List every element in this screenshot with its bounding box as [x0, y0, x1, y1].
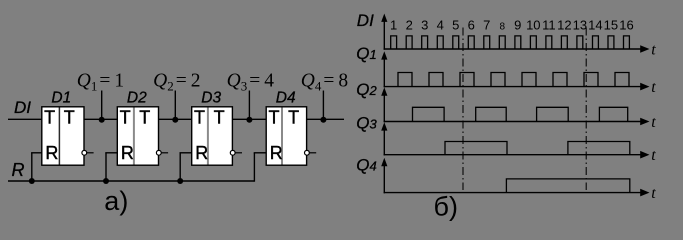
svg-text:R: R [45, 143, 58, 163]
svg-text:15: 15 [604, 18, 618, 33]
wire Q4 tap (vertical) [322, 91, 324, 120]
svg-text:10: 10 [526, 18, 540, 33]
svg-text:14: 14 [588, 18, 602, 33]
svg-text:Q: Q [301, 71, 315, 92]
svg-text:2: 2 [191, 71, 201, 92]
svg-text:D1: D1 [51, 90, 71, 107]
wire Q1 tap (vertical) [101, 91, 103, 120]
svg-text:4: 4 [264, 71, 274, 92]
flip-flop D1 (T-type) [42, 107, 84, 165]
inverted output bubble of D1 [82, 150, 87, 155]
junction node Q3 [246, 117, 252, 123]
svg-text:Q1: Q1 [356, 44, 376, 63]
pulse numbers 1..16 [390, 18, 634, 33]
axis row DI: horizontal time axis with arrow [384, 48, 643, 50]
wire D3.Q to D4.T [232, 118, 266, 120]
svg-text:а): а) [104, 186, 128, 216]
node label Q2 = 2 [153, 71, 200, 94]
junction node Q1 [99, 117, 105, 123]
node label Q1 = 1 [77, 71, 124, 94]
svg-text:4: 4 [437, 18, 444, 33]
svg-text:T: T [269, 107, 280, 127]
svg-text:5: 5 [452, 18, 459, 33]
inverted output bubble of D3 [230, 150, 235, 155]
svg-text:1: 1 [390, 18, 397, 33]
axis row DI: vertical axis with up arrow [383, 18, 385, 50]
flip-flop D3 (T-type) [192, 107, 233, 165]
wire D2 inverted output stub [161, 152, 168, 154]
cursor line after pulse 13 (dash-dot) [585, 28, 587, 191]
svg-text:T: T [139, 107, 150, 127]
svg-text:T: T [288, 107, 299, 127]
svg-text:T: T [120, 107, 131, 127]
node label Q3 = 4 [227, 71, 275, 94]
svg-text:1: 1 [91, 78, 98, 93]
svg-text:=: = [249, 71, 260, 92]
svg-text:16: 16 [619, 18, 633, 33]
svg-text:2: 2 [406, 18, 413, 33]
wire D1.Q to D2.T [84, 118, 117, 120]
svg-text:3: 3 [241, 78, 248, 93]
axis row Q4: vertical axis with up arrow [383, 162, 385, 194]
svg-text:б): б) [434, 191, 458, 221]
svg-text:t: t [651, 114, 656, 131]
svg-text:DI: DI [357, 11, 374, 30]
svg-text:D3: D3 [201, 90, 221, 107]
axis row Q1: horizontal time axis with arrow [384, 86, 643, 88]
svg-text:R: R [121, 143, 134, 163]
svg-text:T: T [44, 107, 55, 127]
flip-flop D4 (T-type) [266, 107, 306, 165]
svg-text:13: 13 [573, 18, 587, 33]
svg-text:DI: DI [14, 98, 31, 117]
svg-text:4: 4 [315, 78, 322, 93]
waveform Q4 (sixteenth clock rate) [506, 179, 629, 193]
wire D2.Q to D3.T [159, 118, 192, 120]
inverted output bubble of D4 [305, 150, 310, 155]
svg-text:3: 3 [421, 18, 428, 33]
axis row Q2: vertical axis with up arrow [383, 91, 385, 122]
junction on R bus at D1 riser [29, 178, 35, 184]
wire R riser to D3.R [179, 153, 181, 182]
svg-text:8: 8 [338, 71, 348, 92]
svg-text:Q2: Q2 [356, 80, 377, 99]
waveform Q1 (half clock rate) [398, 73, 629, 87]
svg-text:R: R [195, 143, 208, 163]
waveform Q2 (quarter clock rate) [413, 107, 628, 121]
svg-text:R: R [270, 143, 283, 163]
svg-text:D2: D2 [127, 90, 147, 107]
junction node Q2 [172, 117, 178, 123]
svg-text:T: T [64, 107, 75, 127]
axis row Q4: horizontal time axis with arrow [384, 192, 643, 194]
wire D3 inverted output stub [235, 152, 242, 154]
wire R riser to D1.R [31, 153, 33, 182]
wire R riser to D4.R [253, 153, 255, 182]
svg-text:8: 8 [500, 22, 506, 33]
svg-text:Q: Q [227, 71, 241, 92]
svg-text:T: T [214, 107, 225, 127]
svg-text:=: = [323, 71, 334, 92]
junction on R bus at D2 riser [103, 178, 109, 184]
waveform DI: clock pulse train (16 pulses) [391, 36, 630, 49]
svg-text:=: = [99, 71, 110, 92]
svg-text:T: T [194, 107, 205, 127]
wire R bus (reset rail) [8, 180, 254, 182]
axis row Q2: horizontal time axis with arrow [384, 121, 643, 123]
cursor line after pulse 5 (dash-dot) [462, 28, 464, 191]
svg-text:2: 2 [167, 78, 174, 93]
wire D4.Q output stub [307, 118, 344, 120]
wire Q3 tap (vertical) [248, 91, 250, 120]
svg-text:Q4: Q4 [356, 156, 376, 175]
svg-text:6: 6 [468, 18, 475, 33]
svg-text:Q: Q [77, 71, 91, 92]
inverted output bubble of D2 [156, 150, 161, 155]
junction node Q4 [320, 117, 326, 123]
svg-text:11: 11 [542, 18, 556, 33]
svg-text:1: 1 [114, 71, 124, 92]
node label Q4 = 8 [301, 71, 348, 94]
svg-text:7: 7 [483, 18, 490, 33]
wire DI input to D1.T [8, 118, 42, 120]
wire D1 inverted output stub [87, 152, 94, 154]
svg-text:t: t [651, 147, 656, 164]
svg-text:R: R [12, 160, 25, 180]
wire R riser to D2.R [105, 153, 107, 182]
flip-flop D2 (T-type) [117, 107, 158, 165]
svg-text:12: 12 [557, 18, 571, 33]
wire Q2 tap (vertical) [174, 91, 176, 120]
junction on R bus at D3 riser [177, 178, 183, 184]
wire D4 inverted output stub [310, 152, 317, 154]
svg-text:Q: Q [153, 71, 167, 92]
waveform Q3 (eighth clock rate) [445, 142, 630, 155]
svg-text:D4: D4 [276, 90, 296, 107]
axis row Q1: vertical axis with up arrow [383, 55, 385, 87]
svg-text:9: 9 [514, 18, 521, 33]
axis row Q3: vertical axis with up arrow [383, 126, 385, 155]
svg-text:Q3: Q3 [356, 113, 377, 132]
svg-text:t: t [651, 185, 656, 202]
svg-text:t: t [651, 41, 656, 58]
axis row Q3: horizontal time axis with arrow [384, 154, 643, 156]
svg-text:t: t [651, 79, 656, 96]
svg-text:=: = [176, 71, 187, 92]
